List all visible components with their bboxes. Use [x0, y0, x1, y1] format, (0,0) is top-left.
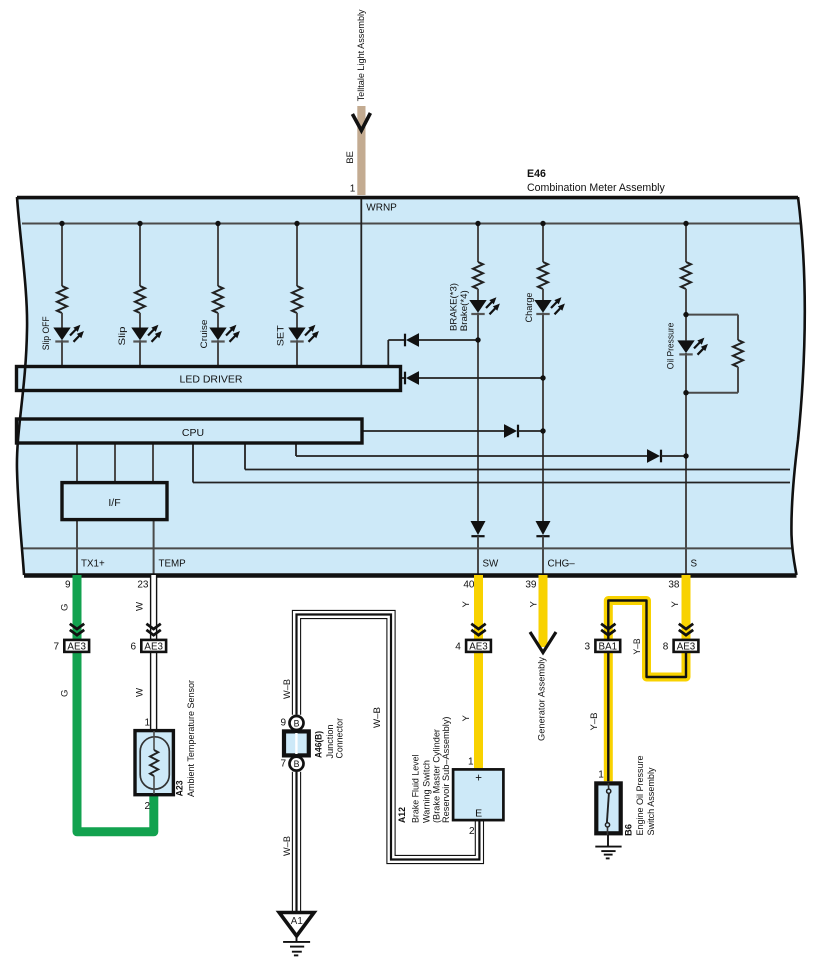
svg-text:7: 7: [53, 642, 59, 653]
svg-text:W–B: W–B: [371, 707, 382, 728]
svg-text:CPU: CPU: [182, 427, 204, 439]
svg-text:1: 1: [598, 769, 604, 780]
svg-text:W–B: W–B: [281, 679, 292, 699]
svg-text:G: G: [60, 604, 71, 611]
svg-text:S: S: [691, 559, 698, 570]
svg-text:Connector: Connector: [333, 718, 344, 759]
svg-text:W: W: [135, 687, 146, 697]
svg-text:AE3: AE3: [677, 642, 696, 653]
svg-text:WRNP: WRNP: [366, 203, 397, 214]
svg-text:Oil Pressure: Oil Pressure: [664, 323, 675, 370]
svg-text:3: 3: [585, 642, 591, 653]
svg-text:Telltale Light Assembly: Telltale Light Assembly: [355, 9, 366, 101]
svg-text:TX1+: TX1+: [81, 559, 105, 570]
svg-text:4: 4: [455, 642, 461, 653]
svg-text:LED DRIVER: LED DRIVER: [179, 373, 242, 385]
svg-text:Y: Y: [461, 715, 472, 722]
svg-text:CHG–: CHG–: [548, 559, 576, 570]
svg-text:Brake Fluid Level: Brake Fluid Level: [410, 755, 421, 824]
svg-text:I/F: I/F: [108, 497, 120, 509]
svg-text:1: 1: [468, 757, 474, 768]
svg-text:1: 1: [144, 718, 150, 729]
svg-text:Charge: Charge: [523, 293, 534, 323]
svg-text:Slip OFF: Slip OFF: [40, 316, 51, 350]
svg-text:Brake(*4): Brake(*4): [458, 290, 469, 331]
svg-text:Generator Assembly: Generator Assembly: [535, 657, 546, 741]
svg-text:B: B: [294, 718, 300, 728]
svg-text:Y–B: Y–B: [588, 713, 599, 731]
svg-text:B6: B6: [623, 824, 634, 836]
svg-text:A12: A12: [396, 807, 407, 823]
svg-text:39: 39: [525, 580, 537, 591]
svg-text:38: 38: [668, 580, 680, 591]
svg-text:Y: Y: [461, 601, 472, 608]
svg-text:W–B: W–B: [281, 836, 292, 856]
svg-text:A46(B): A46(B): [312, 731, 323, 758]
svg-text:Combination Meter Assembly: Combination Meter Assembly: [527, 182, 665, 194]
svg-text:2: 2: [469, 826, 475, 837]
svg-text:A23: A23: [174, 780, 185, 796]
svg-text:AE3: AE3: [67, 642, 86, 653]
svg-text:SET: SET: [275, 325, 286, 346]
svg-text:AE3: AE3: [144, 642, 163, 653]
svg-text:BA1: BA1: [599, 642, 618, 653]
svg-text:1: 1: [350, 184, 356, 195]
svg-text:Ambient Temperature Sensor: Ambient Temperature Sensor: [185, 680, 196, 797]
svg-text:A1: A1: [291, 916, 303, 927]
svg-text:+: +: [475, 773, 482, 785]
svg-text:BE: BE: [344, 151, 355, 164]
svg-text:W: W: [135, 601, 146, 611]
svg-text:G: G: [60, 690, 71, 697]
svg-text:B: B: [294, 759, 300, 769]
svg-text:Reservoir Sub–Assembly): Reservoir Sub–Assembly): [440, 717, 451, 824]
svg-text:E: E: [475, 808, 482, 820]
svg-text:AE3: AE3: [469, 642, 488, 653]
svg-text:7: 7: [280, 759, 286, 770]
svg-text:Slip: Slip: [116, 327, 127, 346]
svg-text:2: 2: [144, 801, 150, 812]
svg-text:E46: E46: [527, 168, 546, 180]
svg-text:6: 6: [130, 642, 136, 653]
svg-text:9: 9: [65, 580, 71, 591]
svg-text:Y: Y: [529, 601, 540, 608]
svg-text:40: 40: [463, 580, 475, 591]
svg-text:Cruise: Cruise: [198, 320, 209, 349]
svg-text:SW: SW: [483, 559, 500, 570]
svg-text:TEMP: TEMP: [159, 559, 187, 570]
svg-text:9: 9: [280, 718, 286, 729]
svg-text:Switch Assembly: Switch Assembly: [645, 767, 656, 835]
svg-text:Engine Oil Pressure: Engine Oil Pressure: [634, 756, 645, 836]
svg-text:BRAKE(*3): BRAKE(*3): [447, 283, 458, 331]
svg-text:23: 23: [137, 580, 149, 591]
svg-text:Y: Y: [670, 601, 681, 608]
svg-text:8: 8: [663, 642, 669, 653]
svg-text:Y–B: Y–B: [631, 639, 642, 655]
